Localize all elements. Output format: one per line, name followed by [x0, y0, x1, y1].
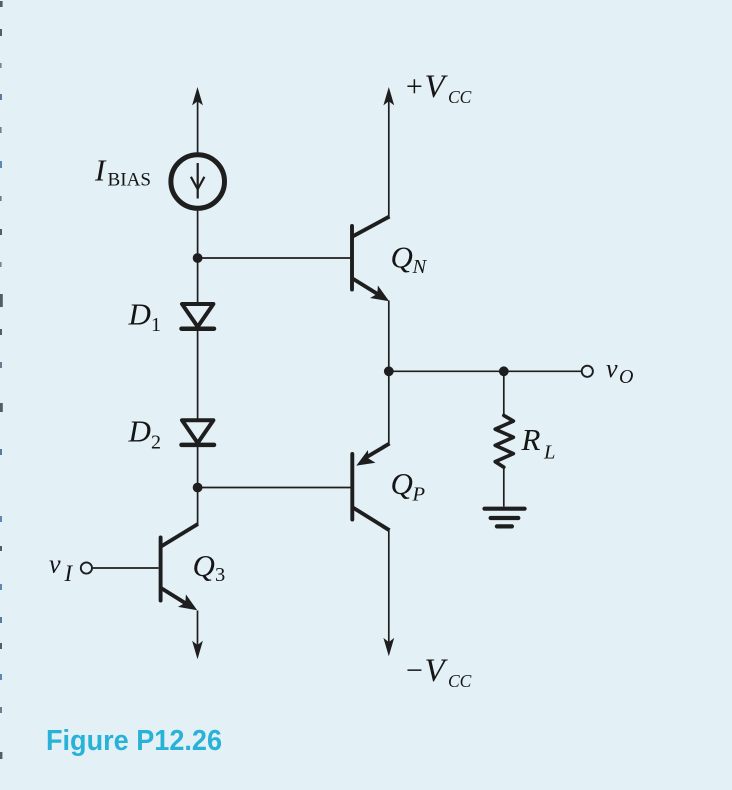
label vI: [49, 550, 74, 587]
transistor QN: [352, 217, 390, 296]
transistor Q3: [161, 524, 198, 605]
label IBIAS: [94, 153, 151, 191]
svg-text:D: D: [128, 297, 151, 332]
svg-text:CC: CC: [448, 671, 472, 691]
output node dot at RL: [499, 366, 509, 376]
svg-text:v: v: [49, 550, 61, 579]
label +VCC: [404, 69, 472, 107]
transistor QP: [352, 444, 389, 531]
wire node A to QN base: [198, 257, 351, 259]
arrow up-left top (IBIAS rail): [192, 87, 203, 105]
diode D1: [182, 304, 215, 329]
current source IBIAS circle: [171, 155, 225, 209]
wire QN emitter to output node: [388, 301, 390, 372]
resistor RL: [495, 415, 513, 467]
output node dot at rail: [384, 366, 394, 376]
wire QP collector to -VCC arrow: [388, 530, 390, 646]
svg-text:CC: CC: [448, 87, 472, 107]
svg-text:Q: Q: [193, 548, 215, 583]
label QP: [391, 466, 426, 506]
svg-text:I: I: [64, 561, 74, 586]
wire vI to Q3 base: [93, 567, 159, 569]
svg-text:v: v: [606, 354, 618, 383]
label D1: [128, 297, 162, 337]
svg-text:L: L: [543, 442, 555, 464]
QN emitter arrowhead: [370, 286, 389, 302]
label RL: [521, 422, 556, 464]
svg-text:BIAS: BIAS: [108, 170, 152, 191]
node A junction dot: [193, 253, 203, 263]
svg-text:D: D: [128, 414, 151, 449]
svg-text:Q: Q: [391, 466, 413, 501]
svg-text:O: O: [619, 366, 633, 388]
svg-text:Figure P12.26: Figure P12.26: [46, 725, 222, 757]
svg-text:Q: Q: [391, 240, 413, 275]
ground: [485, 509, 525, 527]
svg-text:I: I: [94, 153, 107, 188]
svg-text:1: 1: [151, 314, 161, 336]
wire output node to vO terminal: [389, 370, 582, 372]
label -VCC: [404, 653, 472, 691]
wire RL to ground: [503, 467, 505, 507]
wire +VCC rail to QN collector: [388, 97, 390, 217]
svg-text:N: N: [412, 256, 428, 278]
QP emitter arrowhead: [356, 450, 375, 466]
svg-text:2: 2: [151, 432, 161, 454]
label Q3: [193, 548, 226, 586]
svg-text:+: +: [404, 70, 424, 103]
current source arrow: [191, 163, 205, 199]
left margin clipped glyph fragments: [0, 1, 3, 759]
wire output node to QP emitter: [388, 371, 390, 444]
svg-text:3: 3: [215, 564, 225, 586]
terminal vI open circle: [81, 562, 92, 573]
arrow -VCC: [383, 638, 394, 656]
svg-text:−: −: [404, 654, 424, 687]
wire node A to D1: [197, 258, 199, 303]
wire current source to node A: [197, 211, 199, 259]
svg-text:R: R: [521, 422, 541, 457]
arrow Q3 emitter rail down: [192, 641, 203, 659]
wire Q3 emitter down arrow shaft: [197, 611, 199, 650]
diode D2: [182, 420, 215, 445]
wire output node to RL: [503, 371, 505, 416]
wire top-left rail above current source: [197, 97, 199, 153]
arrow +VCC: [383, 87, 394, 105]
label QN: [391, 240, 428, 279]
wire node B to Q3 collector: [197, 488, 199, 526]
label vO: [606, 354, 633, 388]
wire node B to QP base: [198, 487, 351, 489]
node B junction dot: [193, 483, 203, 493]
label D2: [128, 414, 162, 454]
svg-text:P: P: [412, 484, 426, 506]
Q3 emitter arrowhead: [178, 594, 197, 610]
wire D2 to node B: [197, 446, 199, 488]
terminal vO open circle: [582, 366, 593, 377]
wire D1 to D2: [197, 330, 199, 419]
